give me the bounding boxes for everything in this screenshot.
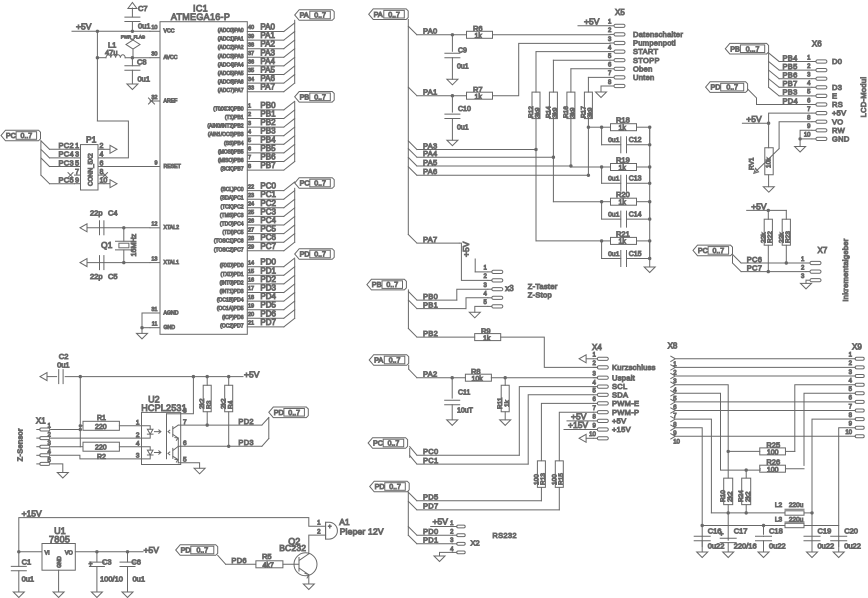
- svg-text:GND: GND: [57, 556, 63, 568]
- svg-text:X5: X5: [615, 8, 625, 17]
- svg-text:10: 10: [589, 432, 596, 438]
- svg-text:36: 36: [248, 60, 254, 66]
- svg-text:19: 19: [248, 303, 254, 309]
- svg-text:C6: C6: [131, 558, 141, 567]
- svg-text:(MOSI)PB5: (MOSI)PB5: [218, 149, 244, 155]
- svg-text:PD: PD: [711, 83, 721, 92]
- svg-text:PA0: PA0: [423, 27, 438, 36]
- svg-text:ATMEGA16-P: ATMEGA16-P: [171, 12, 230, 22]
- svg-text:PWR_FLAG: PWR_FLAG: [121, 35, 146, 40]
- svg-text:R22: R22: [767, 231, 774, 243]
- svg-text:C3: C3: [102, 558, 112, 567]
- svg-text:X2: X2: [471, 539, 480, 548]
- svg-text:(SDA)PC1: (SDA)PC1: [220, 196, 244, 202]
- svg-text:HCPL2531: HCPL2531: [141, 403, 187, 413]
- svg-text:PC1: PC1: [423, 456, 439, 465]
- svg-text:(SS)PB4: (SS)PB4: [224, 141, 244, 147]
- svg-text:(AIN0/INT2)PB2: (AIN0/INT2)PB2: [207, 124, 243, 130]
- svg-text:PC: PC: [300, 179, 310, 188]
- svg-text:R23: R23: [785, 231, 792, 243]
- svg-text:0u1: 0u1: [138, 75, 151, 84]
- svg-text:(TOSC1)PC6: (TOSC1)PC6: [214, 239, 244, 245]
- svg-text:LCD-Modul: LCD-Modul: [859, 77, 868, 118]
- svg-text:30: 30: [151, 52, 157, 58]
- svg-text:PD: PD: [274, 408, 284, 417]
- svg-text:31: 31: [151, 307, 157, 313]
- svg-text:0...7: 0...7: [746, 46, 760, 53]
- svg-text:PA: PA: [374, 356, 383, 365]
- svg-text:R6: R6: [473, 24, 483, 33]
- svg-text:0..7: 0..7: [389, 484, 401, 491]
- svg-text:(ADC1)PA1: (ADC1)PA1: [218, 37, 244, 43]
- svg-text:38: 38: [248, 42, 254, 48]
- svg-text:0..7: 0..7: [288, 410, 300, 417]
- svg-text:L3: L3: [775, 517, 783, 524]
- svg-text:(ADC4)PA4: (ADC4)PA4: [218, 62, 244, 68]
- svg-text:0..7: 0..7: [314, 181, 326, 188]
- svg-text:4: 4: [248, 129, 251, 135]
- svg-text:1: 1: [317, 519, 321, 526]
- svg-text:(ADC7)PA7: (ADC7)PA7: [218, 88, 244, 94]
- svg-text:RESET: RESET: [164, 164, 182, 170]
- svg-text:5: 5: [75, 160, 79, 167]
- svg-text:4: 4: [100, 152, 104, 159]
- svg-text:1: 1: [136, 420, 140, 427]
- svg-text:R26: R26: [766, 458, 780, 467]
- svg-text:22p: 22p: [90, 209, 103, 218]
- svg-text:3k9: 3k9: [570, 107, 577, 118]
- svg-text:13: 13: [151, 256, 157, 262]
- svg-text:11: 11: [152, 322, 158, 328]
- svg-text:6: 6: [100, 160, 104, 167]
- svg-text:PA5: PA5: [423, 158, 438, 167]
- svg-text:C9: C9: [458, 47, 467, 54]
- svg-text:R1: R1: [97, 415, 106, 422]
- svg-text:28: 28: [248, 236, 254, 242]
- svg-text:VI: VI: [45, 551, 51, 557]
- svg-text:PB: PB: [372, 280, 382, 289]
- svg-text:(OC2)PD7: (OC2)PD7: [220, 323, 244, 329]
- svg-text:+: +: [328, 525, 332, 531]
- svg-text:PA: PA: [374, 10, 383, 19]
- svg-text:220: 220: [95, 424, 107, 431]
- svg-text:4: 4: [136, 441, 140, 448]
- svg-text:X8: X8: [668, 342, 678, 351]
- svg-text:0u1: 0u1: [608, 211, 620, 218]
- svg-text:R8: R8: [471, 367, 481, 376]
- svg-text:X4: X4: [592, 343, 602, 352]
- svg-text:PWM-P: PWM-P: [612, 408, 639, 417]
- svg-text:+5V: +5V: [433, 517, 449, 527]
- svg-text:7: 7: [248, 155, 251, 161]
- svg-text:10uT: 10uT: [457, 408, 474, 415]
- svg-text:16MHz: 16MHz: [129, 233, 138, 256]
- svg-text:PB2: PB2: [423, 329, 438, 338]
- svg-text:16: 16: [248, 278, 254, 284]
- svg-text:2k2: 2k2: [745, 491, 752, 502]
- svg-text:D0: D0: [832, 57, 842, 66]
- svg-text:10: 10: [151, 25, 157, 31]
- svg-text:17: 17: [248, 286, 254, 292]
- svg-text:PB7: PB7: [260, 161, 276, 170]
- svg-text:23: 23: [248, 193, 254, 199]
- svg-text:C18: C18: [769, 527, 783, 536]
- svg-text:X9: X9: [852, 343, 862, 352]
- svg-text:8: 8: [248, 164, 251, 170]
- svg-text:CONN_5X2: CONN_5X2: [88, 153, 95, 186]
- svg-text:C5: C5: [108, 272, 118, 281]
- svg-text:7805: 7805: [49, 534, 70, 544]
- svg-text:1k: 1k: [475, 33, 483, 40]
- svg-text:(OC1A)PD5: (OC1A)PD5: [217, 306, 244, 312]
- svg-text:0u1: 0u1: [608, 176, 620, 183]
- svg-text:R9: R9: [481, 326, 491, 335]
- svg-text:29: 29: [248, 245, 254, 251]
- svg-text:220/16: 220/16: [734, 542, 757, 551]
- svg-text:PC7: PC7: [260, 242, 276, 251]
- svg-text:1: 1: [248, 104, 251, 110]
- svg-text:2k2: 2k2: [727, 491, 734, 502]
- svg-text:C20: C20: [844, 527, 858, 536]
- svg-text:(ADC5)PA5: (ADC5)PA5: [218, 71, 244, 77]
- svg-text:Z-Stop: Z-Stop: [528, 290, 552, 299]
- svg-text:R13: R13: [540, 473, 547, 485]
- svg-text:+5V: +5V: [244, 370, 260, 380]
- svg-text:R5: R5: [262, 552, 272, 561]
- svg-text:PA4: PA4: [423, 149, 438, 158]
- svg-text:VO: VO: [65, 551, 74, 557]
- svg-text:2: 2: [136, 432, 140, 439]
- svg-text:1k: 1k: [483, 335, 491, 342]
- svg-text:33: 33: [248, 85, 254, 91]
- svg-text:0u1: 0u1: [22, 575, 35, 584]
- svg-text:22: 22: [248, 184, 254, 190]
- svg-text:9: 9: [75, 178, 79, 185]
- svg-text:R25: R25: [766, 440, 780, 449]
- svg-text:(AIN1/OC0)PB3: (AIN1/OC0)PB3: [208, 132, 244, 138]
- svg-text:PD3: PD3: [238, 438, 254, 447]
- svg-text:XTAL2: XTAL2: [164, 225, 180, 231]
- svg-text:0u22: 0u22: [844, 542, 861, 551]
- svg-text:PD6: PD6: [231, 556, 247, 565]
- svg-text:1k: 1k: [504, 399, 511, 407]
- svg-text:1k: 1k: [619, 239, 627, 246]
- svg-text:AGND: AGND: [164, 310, 179, 316]
- svg-text:XTAL1: XTAL1: [164, 260, 180, 266]
- svg-text:+5V: +5V: [584, 17, 600, 27]
- svg-text:3k9: 3k9: [535, 107, 542, 118]
- svg-text:R7: R7: [473, 85, 483, 94]
- svg-text:C13: C13: [629, 176, 642, 183]
- svg-text:3: 3: [248, 121, 251, 127]
- svg-text:C15: C15: [629, 251, 642, 258]
- svg-text:100/10: 100/10: [100, 575, 123, 584]
- svg-text:(INT1)PD3: (INT1)PD3: [220, 289, 244, 295]
- svg-text:15: 15: [248, 269, 254, 275]
- svg-text:1k: 1k: [619, 165, 627, 172]
- svg-text:Pieper 12V: Pieper 12V: [340, 526, 384, 536]
- svg-text:(SCK)PB7: (SCK)PB7: [220, 167, 243, 173]
- svg-text:C11: C11: [458, 390, 470, 397]
- svg-text:0..7: 0..7: [388, 441, 400, 448]
- svg-text:Q1: Q1: [101, 240, 113, 250]
- svg-text:(TMS)PC3: (TMS)PC3: [220, 213, 244, 219]
- svg-text:C19: C19: [818, 527, 832, 536]
- svg-text:+: +: [719, 529, 724, 538]
- svg-text:C14: C14: [629, 211, 642, 218]
- svg-text:3k9: 3k9: [552, 107, 559, 118]
- svg-text:10: 10: [845, 430, 852, 436]
- svg-text:PD: PD: [300, 250, 310, 259]
- svg-text:P1: P1: [86, 135, 97, 145]
- svg-text:0u1: 0u1: [457, 63, 469, 70]
- svg-text:GND: GND: [164, 325, 176, 331]
- svg-text:C12: C12: [629, 137, 642, 144]
- svg-text:100: 100: [767, 467, 779, 474]
- svg-text:10k: 10k: [472, 376, 484, 383]
- svg-text:PC7: PC7: [747, 263, 763, 272]
- svg-text:Kurzschluss: Kurzschluss: [612, 363, 656, 372]
- svg-text:0u1: 0u1: [608, 137, 620, 144]
- svg-text:PA7: PA7: [423, 235, 438, 244]
- svg-text:C1: C1: [22, 558, 32, 567]
- svg-text:0..7: 0..7: [314, 94, 326, 101]
- svg-text:(MISO)PB6: (MISO)PB6: [218, 158, 244, 164]
- svg-text:+15V: +15V: [568, 420, 588, 430]
- svg-text:+15V: +15V: [612, 425, 631, 434]
- svg-text:2: 2: [248, 112, 251, 118]
- svg-text:25: 25: [248, 210, 254, 216]
- svg-text:(INT0)PD2: (INT0)PD2: [220, 280, 244, 286]
- svg-text:C7: C7: [138, 4, 148, 13]
- svg-text:+5V: +5V: [144, 545, 160, 555]
- svg-text:X6: X6: [812, 40, 822, 49]
- svg-text:(T1)PB1: (T1)PB1: [225, 115, 244, 121]
- svg-text:R19: R19: [616, 156, 630, 165]
- svg-text:R21: R21: [616, 229, 630, 238]
- svg-text:(TXD)PD1: (TXD)PD1: [220, 272, 243, 278]
- svg-text:PC0: PC0: [423, 447, 439, 456]
- svg-text:C4: C4: [108, 209, 118, 218]
- svg-text:220u: 220u: [789, 502, 804, 509]
- svg-text:PB: PB: [300, 92, 310, 101]
- svg-text:1k: 1k: [619, 200, 627, 207]
- svg-text:PA: PA: [300, 11, 309, 20]
- svg-text:37: 37: [248, 51, 254, 57]
- svg-text:0u22: 0u22: [769, 542, 786, 551]
- svg-text:+: +: [89, 561, 93, 568]
- svg-text:5: 5: [248, 138, 251, 144]
- svg-text:PD1: PD1: [423, 536, 439, 545]
- svg-text:4k7: 4k7: [263, 562, 274, 569]
- svg-text:0u22: 0u22: [818, 542, 835, 551]
- svg-text:1k: 1k: [619, 125, 627, 132]
- svg-text:PA2: PA2: [423, 370, 438, 379]
- svg-text:(TOSC2)PC7: (TOSC2)PC7: [214, 247, 244, 253]
- svg-text:C8: C8: [137, 58, 147, 67]
- svg-text:35: 35: [248, 68, 254, 74]
- svg-text:0u1: 0u1: [457, 125, 469, 132]
- svg-text:0u1: 0u1: [608, 251, 620, 258]
- svg-text:Unten: Unten: [633, 73, 655, 82]
- svg-text:PA6: PA6: [423, 167, 438, 176]
- svg-text:0..7: 0..7: [386, 282, 398, 289]
- svg-text:40: 40: [248, 25, 254, 31]
- svg-text:21: 21: [248, 321, 254, 327]
- svg-text:(SCL)PC0: (SCL)PC0: [221, 187, 244, 193]
- svg-text:0..7: 0..7: [713, 248, 725, 255]
- svg-text:PD4: PD4: [783, 96, 799, 105]
- svg-text:PD: PD: [375, 482, 385, 491]
- svg-text:X7: X7: [818, 246, 828, 255]
- svg-text:0u1: 0u1: [57, 361, 70, 370]
- svg-text:PD: PD: [181, 546, 191, 555]
- svg-text:0..7: 0..7: [388, 12, 400, 19]
- svg-text:+5V: +5V: [76, 22, 92, 32]
- svg-text:VCC: VCC: [164, 29, 175, 35]
- svg-text:1: 1: [75, 143, 79, 150]
- svg-text:6: 6: [248, 147, 251, 153]
- svg-text:R3: R3: [206, 400, 213, 409]
- svg-text:0..7: 0..7: [314, 252, 326, 259]
- svg-text:Uspalt: Uspalt: [612, 373, 636, 382]
- svg-text:(RXD)PD0: (RXD)PD0: [220, 263, 244, 269]
- svg-text:220: 220: [95, 445, 107, 452]
- svg-text:R2: R2: [97, 454, 106, 461]
- svg-text:C17: C17: [734, 527, 748, 536]
- svg-text:PD5: PD5: [423, 493, 439, 502]
- svg-text:0..7: 0..7: [21, 133, 33, 140]
- svg-text:x3: x3: [505, 284, 514, 293]
- svg-text:(OC1B)PD4: (OC1B)PD4: [217, 298, 244, 304]
- svg-text:AREF: AREF: [164, 98, 178, 104]
- svg-text:0u1: 0u1: [133, 575, 146, 584]
- svg-text:PA7: PA7: [260, 83, 275, 92]
- svg-text:+15V: +15V: [22, 509, 42, 519]
- svg-text:PWM-E: PWM-E: [612, 399, 639, 408]
- svg-text:AVCC: AVCC: [164, 55, 178, 61]
- svg-text:Inkrementalgeber: Inkrementalgeber: [841, 238, 850, 301]
- svg-text:0u1: 0u1: [138, 22, 151, 31]
- svg-text:0..7: 0..7: [314, 13, 326, 20]
- svg-text:10: 10: [673, 440, 680, 446]
- svg-text:PC3: PC3: [59, 158, 75, 167]
- svg-text:12: 12: [151, 222, 157, 228]
- svg-text:0..7: 0..7: [389, 358, 401, 365]
- svg-text:1k: 1k: [475, 94, 483, 101]
- svg-text:PB1: PB1: [423, 300, 438, 309]
- svg-text:10: 10: [804, 133, 811, 139]
- svg-text:R4: R4: [227, 400, 234, 409]
- svg-text:20: 20: [248, 312, 254, 318]
- svg-text:3k9: 3k9: [587, 107, 594, 118]
- svg-text:R15: R15: [558, 473, 565, 485]
- svg-text:PD2: PD2: [238, 417, 254, 426]
- svg-text:(TDI)PC5: (TDI)PC5: [222, 230, 243, 236]
- svg-text:0..7: 0..7: [196, 548, 208, 555]
- svg-text:2: 2: [100, 143, 104, 150]
- svg-text:34: 34: [248, 77, 254, 83]
- svg-text:PB: PB: [730, 44, 740, 53]
- svg-text:RV1: RV1: [749, 157, 756, 170]
- svg-text:X1: X1: [36, 417, 46, 426]
- svg-text:100: 100: [767, 450, 779, 457]
- svg-text:L2: L2: [775, 502, 783, 509]
- svg-text:(T0/XCK)PB0: (T0/XCK)PB0: [213, 106, 244, 112]
- svg-text:Z-Sensor: Z-Sensor: [16, 428, 25, 461]
- svg-text:(ICP)PD6: (ICP)PD6: [222, 315, 244, 321]
- svg-text:22p: 22p: [90, 272, 103, 281]
- svg-text:PC: PC: [6, 131, 16, 140]
- svg-text:BC232: BC232: [279, 543, 306, 553]
- svg-text:(ADC3)PA3: (ADC3)PA3: [218, 54, 244, 60]
- svg-text:PD7: PD7: [423, 502, 439, 511]
- svg-text:26: 26: [248, 219, 254, 225]
- svg-text:(ADC2)PA2: (ADC2)PA2: [218, 45, 244, 51]
- svg-text:(ADC6)PA6: (ADC6)PA6: [218, 80, 244, 86]
- svg-text:24: 24: [248, 202, 254, 208]
- svg-text:R18: R18: [616, 116, 630, 125]
- svg-text:PC: PC: [698, 246, 708, 255]
- svg-text:9: 9: [154, 160, 157, 166]
- svg-text:27: 27: [248, 227, 254, 233]
- svg-text:14: 14: [248, 260, 254, 266]
- svg-text:(TDO)PC4: (TDO)PC4: [220, 222, 244, 228]
- svg-text:7: 7: [75, 169, 79, 176]
- svg-text:47u: 47u: [105, 48, 118, 57]
- svg-text:PC: PC: [373, 439, 383, 448]
- svg-text:RS232: RS232: [492, 531, 516, 540]
- svg-text:+5V: +5V: [461, 241, 471, 257]
- svg-text:39: 39: [248, 34, 254, 40]
- svg-text:R20: R20: [616, 190, 630, 199]
- svg-text:GND: GND: [832, 135, 850, 144]
- svg-text:C10: C10: [458, 106, 471, 113]
- svg-text:0..7: 0..7: [726, 85, 738, 92]
- svg-text:2: 2: [317, 528, 321, 535]
- svg-text:PD7: PD7: [260, 318, 276, 327]
- svg-text:18: 18: [248, 295, 254, 301]
- svg-text:(TCK)PC2: (TCK)PC2: [220, 204, 243, 210]
- svg-text:PA1: PA1: [423, 88, 438, 97]
- svg-text:3: 3: [136, 453, 140, 460]
- svg-text:(ADC0)PA0: (ADC0)PA0: [218, 28, 244, 34]
- svg-text:3: 3: [75, 152, 79, 159]
